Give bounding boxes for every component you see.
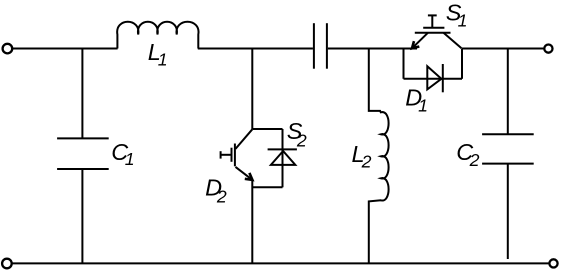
transistor S1 collector lead xyxy=(444,33,462,49)
capacitor series (left plate) xyxy=(313,23,315,68)
label D1 xyxy=(405,84,428,115)
diode D1 cathode bar xyxy=(442,64,444,92)
capacitor C2 xyxy=(482,134,534,163)
wire S2 loop bottom stub xyxy=(252,186,282,188)
transistor S2 collector lead xyxy=(236,129,253,149)
svg-text:2: 2 xyxy=(296,130,307,150)
wire S1 loop bottom xyxy=(404,78,463,80)
wire S1 loop right side xyxy=(461,49,463,79)
terminal bottom-right xyxy=(549,259,557,267)
terminal bottom-left xyxy=(2,259,12,269)
wire C1 branch lower xyxy=(81,169,83,263)
transistor S1 gate bar xyxy=(423,27,444,29)
svg-text:1: 1 xyxy=(125,149,135,169)
transistor S1 gate lead xyxy=(431,15,433,27)
terminal top-right xyxy=(544,45,552,53)
inductor L1 xyxy=(117,22,198,49)
wire top rail between series capacitor and S1 xyxy=(328,48,417,50)
diode D1 triangle xyxy=(427,66,441,89)
label L1 xyxy=(148,39,168,69)
label C1 xyxy=(111,139,134,169)
wire S2 branch lower xyxy=(251,180,253,264)
label C2 xyxy=(456,139,479,170)
wire S2 loop right side xyxy=(282,129,284,187)
diode D2 cathode bar xyxy=(268,148,297,150)
svg-text:2: 2 xyxy=(361,152,372,172)
transistor S2 emitter lead xyxy=(236,167,253,180)
svg-text:1: 1 xyxy=(158,49,168,69)
wire top rail middle segment xyxy=(198,48,313,50)
wire S2 branch upper xyxy=(251,49,253,130)
transistor S2 gate lead xyxy=(221,154,232,156)
transistor S2 gate bar xyxy=(231,148,233,162)
wire C1 branch upper xyxy=(81,49,83,139)
transistor S2 body bar xyxy=(234,144,236,167)
transistor S1 gate terminal bar xyxy=(428,14,437,16)
label S1 xyxy=(446,0,468,31)
transistor S1 emitter arrowhead xyxy=(412,41,419,48)
terminal top-left xyxy=(3,44,13,54)
label S2 xyxy=(287,118,307,150)
capacitor series (right plate) xyxy=(326,23,328,68)
wire top rail left segment xyxy=(12,48,117,50)
label L2 xyxy=(352,141,372,172)
wire C2 branch upper xyxy=(507,49,509,135)
transistor S2 gate terminal bar xyxy=(220,151,222,158)
transistor S2 emitter arrowhead xyxy=(245,173,253,180)
wire C2 branch lower xyxy=(507,164,509,259)
wire S2 loop top stub xyxy=(252,128,282,130)
transistor S1 emitter lead xyxy=(412,33,428,49)
svg-text:1: 1 xyxy=(418,95,428,115)
wire S1 loop left side xyxy=(403,49,405,79)
diode D2 triangle xyxy=(271,151,295,165)
label D2 xyxy=(205,174,227,206)
svg-text:2: 2 xyxy=(216,186,227,206)
wire top rail right segment xyxy=(462,48,544,50)
svg-text:1: 1 xyxy=(458,11,468,31)
wire bottom rail xyxy=(12,262,549,264)
transistor S1 body bar xyxy=(415,32,451,34)
wire L2 branch and inductor L2 xyxy=(369,49,389,264)
capacitor C1 xyxy=(57,138,109,169)
svg-text:2: 2 xyxy=(469,150,480,170)
